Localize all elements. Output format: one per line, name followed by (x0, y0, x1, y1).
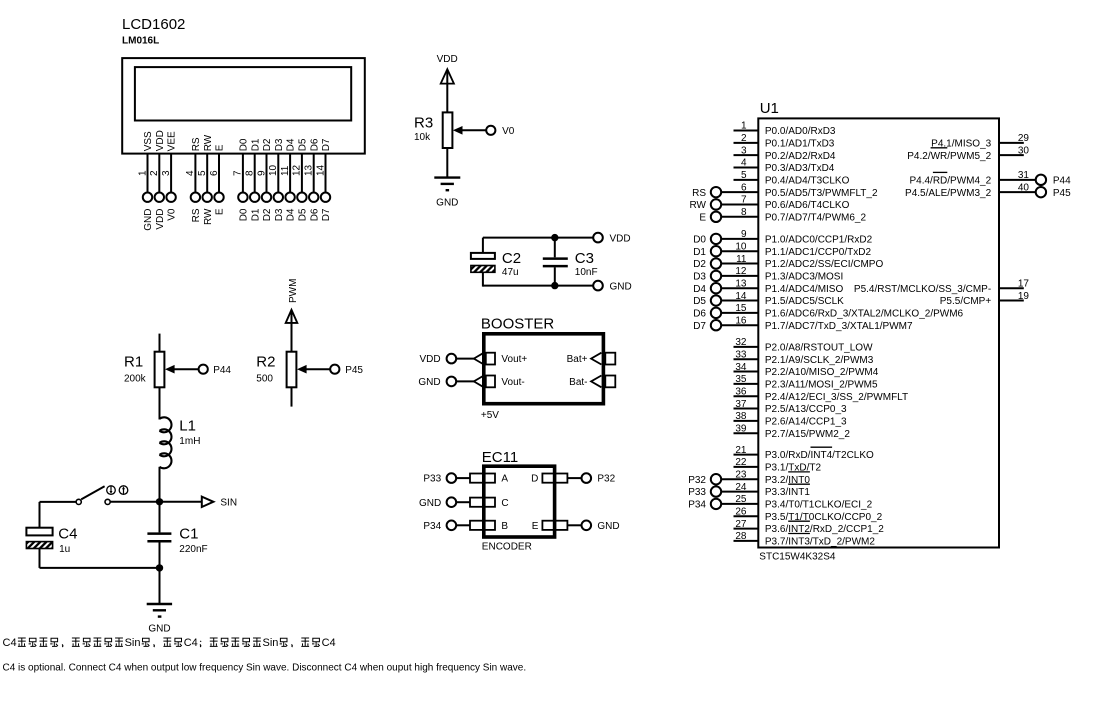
wire R2 bottom stub (291, 387, 293, 406)
svg-text:EC11: EC11 (482, 449, 518, 466)
svg-text:P33: P33 (423, 474, 441, 485)
svg-text:RS: RS (191, 208, 202, 222)
PWM net label (vertical) (288, 279, 299, 303)
capacitor C1 labels (179, 526, 207, 555)
switch direction indicator (circled up arrow) (119, 486, 128, 495)
svg-text:29: 29 (1018, 133, 1030, 144)
U1 pin 22 (P3.1) (734, 457, 822, 473)
svg-text:V0: V0 (502, 126, 515, 137)
svg-text:24: 24 (735, 482, 747, 493)
svg-text:P3.3/INT1: P3.3/INT1 (765, 487, 810, 498)
svg-text:P5.5/CMP+: P5.5/CMP+ (940, 296, 992, 307)
U1 pin 8 (P0.7) (699, 207, 866, 223)
wire C4 to node below C1 (40, 567, 160, 569)
svg-text:VDD: VDD (155, 209, 166, 230)
BOOSTER pin Vout+ (474, 353, 528, 366)
BOOSTER pin Bat+ (567, 353, 616, 366)
svg-text:D2: D2 (262, 138, 273, 151)
svg-text:P3.4/T0/T1CLKO/ECI_2: P3.4/T0/T1CLKO/ECI_2 (765, 500, 873, 511)
svg-text:14: 14 (315, 164, 326, 176)
terminal GND (EC11 pin C) (419, 497, 456, 508)
svg-text:21: 21 (735, 445, 747, 456)
svg-text:GND: GND (418, 377, 440, 388)
switch direction indicator (circled down arrow) (107, 486, 116, 495)
svg-text:C4 is optional. Connect C4 whe: C4 is optional. Connect C4 when output l… (3, 662, 527, 673)
U1 pin 11 (P1.2) (693, 254, 883, 270)
U1 pin 33 (P2.1) (734, 349, 874, 365)
U1 pin 21 (P3.0) (734, 445, 875, 461)
svg-text:P1.6/ADC6/RxD_3/XTAL2/MCLKO_2/: P1.6/ADC6/RxD_3/XTAL2/MCLKO_2/PWM6 (765, 308, 964, 319)
svg-text:VDD: VDD (155, 130, 166, 151)
svg-text:D3: D3 (274, 208, 285, 221)
svg-text:P32: P32 (597, 474, 615, 485)
U1 pin 35 (P2.3) (734, 374, 878, 390)
svg-text:P3.6/INT2/RxD_2/CCP1_2: P3.6/INT2/RxD_2/CCP1_2 (765, 524, 884, 535)
svg-text:D5: D5 (298, 138, 309, 151)
svg-text:D5: D5 (693, 296, 706, 307)
LCD pin 5 (RW) wire, number and terminal RW (197, 134, 214, 225)
note line 2 (English): C4 optional note (3, 662, 527, 673)
U1 part type STC15W4K32S4 (759, 552, 836, 563)
U1 pin 30 (P4.2) (907, 145, 1029, 161)
svg-text:47u: 47u (502, 267, 519, 278)
svg-text:D2: D2 (693, 259, 706, 270)
svg-text:9: 9 (256, 170, 267, 176)
svg-text:D6: D6 (693, 308, 706, 319)
svg-text:D: D (531, 474, 538, 485)
svg-text:13: 13 (304, 164, 315, 176)
capacitor C1 (220nF) (147, 502, 171, 568)
EC11 body (484, 466, 555, 537)
svg-text:P1.2/ADC2/SS/ECI/CMPO: P1.2/ADC2/SS/ECI/CMPO (765, 259, 884, 270)
terminal P32 (EC11 pin D) (582, 473, 616, 484)
terminal V0 (486, 126, 515, 137)
svg-text:GND: GND (419, 498, 441, 509)
svg-text:P0.0/AD0/RxD3: P0.0/AD0/RxD3 (765, 126, 836, 137)
svg-text:P1.7/ADC7/TxD_3/XTAL1/PWM7: P1.7/ADC7/TxD_3/XTAL1/PWM7 (765, 321, 913, 332)
U1 pin 36 (P2.4) (734, 386, 909, 402)
svg-text:U1: U1 (760, 100, 779, 117)
BOOSTER pin Vout- (474, 376, 525, 389)
svg-text:C4: C4 (3, 637, 17, 649)
terminal GND (right of C3) (593, 281, 632, 292)
svg-text:7: 7 (741, 195, 747, 206)
svg-text:1: 1 (741, 121, 747, 132)
U1 pin 9 (P1.0) (693, 229, 872, 245)
svg-text:Bat+: Bat+ (567, 354, 588, 365)
svg-text:17: 17 (1018, 278, 1030, 289)
svg-text:10: 10 (268, 164, 279, 176)
svg-text:P1.0/ADC0/CCP1/RxD2: P1.0/ADC0/CCP1/RxD2 (765, 235, 873, 246)
svg-text:25: 25 (735, 494, 747, 505)
wire GND to Vout- pin (456, 380, 474, 382)
U1 pin 26 (P3.5) (734, 506, 883, 522)
potentiometer R2 body (287, 352, 297, 388)
svg-text:GND: GND (143, 209, 154, 231)
U1 pin 6 (P0.5) (692, 182, 878, 198)
svg-text:B: B (501, 521, 508, 532)
svg-text:RW: RW (690, 200, 707, 211)
U1 pin 37 (P2.5) (734, 399, 848, 415)
svg-text:E: E (699, 212, 706, 223)
LCD pin 12 (D5) wire, number and terminal D5 (292, 138, 309, 221)
svg-text:P0.3/AD3/TxD4: P0.3/AD3/TxD4 (765, 163, 835, 174)
wire R1 to L1 (159, 387, 161, 419)
ground symbol (below R3) (434, 178, 460, 209)
U1 pin 14 (P1.5) (693, 291, 844, 307)
LCD pin 4 (RS) wire, number and terminal RS (185, 137, 202, 222)
svg-text:P1.5/ADC5/SCLK: P1.5/ADC5/SCLK (765, 296, 844, 307)
inductor L1 (160, 417, 172, 468)
svg-text:5: 5 (197, 170, 208, 176)
svg-text:C4: C4 (184, 637, 198, 649)
svg-text:D4: D4 (693, 284, 706, 295)
BOOSTER value +5V (481, 410, 499, 421)
svg-text:37: 37 (735, 399, 747, 410)
svg-text:2: 2 (149, 170, 160, 176)
wire GND rail (C2/C3 bottom) (483, 285, 593, 287)
svg-text:RS: RS (692, 188, 706, 199)
svg-text:GND: GND (148, 624, 170, 635)
svg-text:D3: D3 (274, 138, 285, 151)
svg-text:1u: 1u (59, 544, 70, 555)
svg-text:3: 3 (741, 145, 747, 156)
PWM input arrow (286, 310, 298, 352)
svg-text:C1: C1 (179, 526, 198, 543)
terminal VDD (right of C3) (593, 233, 630, 245)
inductor L1 labels (179, 418, 200, 447)
svg-text:30: 30 (1018, 145, 1030, 156)
svg-text:P45: P45 (1053, 188, 1071, 199)
U1 pin 27 (P3.6) (734, 519, 885, 535)
svg-text:6: 6 (209, 170, 220, 176)
svg-text:D1: D1 (693, 247, 706, 258)
U1 pin 16 (P1.7) (693, 315, 913, 331)
svg-text:D6: D6 (309, 138, 320, 151)
EC11 part type ENCODER (482, 541, 532, 552)
svg-text:1mH: 1mH (179, 436, 200, 447)
U1 pin 5 (P0.4) (734, 170, 850, 186)
svg-text:P2.3/A11/MOSI_2/PWM5: P2.3/A11/MOSI_2/PWM5 (765, 379, 878, 390)
svg-text:L1: L1 (179, 418, 196, 435)
svg-text:6: 6 (741, 182, 747, 193)
svg-text:STC15W4K32S4: STC15W4K32S4 (759, 552, 836, 563)
svg-text:33: 33 (735, 349, 747, 360)
svg-text:11: 11 (280, 165, 291, 176)
svg-text:RS: RS (191, 137, 202, 151)
svg-text:E: E (215, 208, 226, 215)
LCD1602 title label (122, 16, 185, 33)
svg-text:28: 28 (735, 531, 747, 542)
svg-text:LCD1602: LCD1602 (122, 16, 185, 33)
svg-text:26: 26 (735, 506, 747, 517)
U1 pin 1 (P0.0) (734, 121, 836, 137)
svg-text:35: 35 (735, 374, 747, 385)
svg-text:1: 1 (137, 170, 148, 176)
power terminal VDD (top of R3) (437, 54, 458, 113)
U1 pin 7 (P0.6) (690, 195, 850, 211)
EC11 pin C (456, 498, 508, 509)
LCD pin 1 (VSS) wire, number and terminal GND (137, 131, 154, 231)
wire R1 top stub (159, 334, 161, 352)
svg-text:P34: P34 (688, 500, 706, 511)
svg-text:10k: 10k (414, 132, 431, 143)
svg-text:E: E (532, 521, 539, 532)
svg-text:36: 36 (735, 386, 747, 397)
LCD pin 9 (D2) wire, number and terminal D2 (256, 138, 273, 221)
junction node at C3 bottom (551, 282, 558, 289)
LCD pin 11 (D4) wire, number and terminal D4 (280, 138, 297, 221)
U1 pin 19 (P5.5) (940, 291, 1030, 307)
U1 pin 24 (P3.3) (688, 482, 810, 498)
svg-text:RW: RW (203, 134, 214, 151)
junction node at C3 top (551, 234, 558, 241)
svg-text:P44: P44 (1053, 175, 1071, 186)
terminal P45 (R2 wiper) (330, 365, 363, 376)
svg-text:P4.4/RD/PWM4_2: P4.4/RD/PWM4_2 (909, 175, 991, 186)
ground symbol (below C1) (147, 604, 172, 635)
U1 pin 12 (P1.3) (693, 266, 843, 282)
capacitor C4 (electrolytic 1u) (26, 528, 52, 568)
LCD1602 part type LM016L (122, 35, 159, 46)
svg-text:P1.1/ADC1/CCP0/TxD2: P1.1/ADC1/CCP0/TxD2 (765, 247, 872, 258)
svg-text:P0.5/AD5/T3/PWMFLT_2: P0.5/AD5/T3/PWMFLT_2 (765, 188, 878, 199)
potentiometer R1 body (155, 352, 165, 388)
svg-text:GND: GND (436, 198, 458, 209)
svg-text:P0.7/AD7/T4/PWM6_2: P0.7/AD7/T4/PWM6_2 (765, 212, 867, 223)
svg-text:VDD: VDD (437, 54, 458, 65)
svg-text:LM016L: LM016L (122, 35, 159, 46)
LCD pin 7 (D0) wire, number and terminal D0 (233, 138, 250, 221)
svg-text:P34: P34 (423, 521, 441, 532)
svg-text:P2.5/A13/CCP0_3: P2.5/A13/CCP0_3 (765, 404, 847, 415)
U1 pin 23 (P3.2) (688, 469, 810, 485)
svg-text:D0: D0 (693, 235, 706, 246)
U1 body STC15W4K32S4 (758, 118, 999, 547)
BOOSTER pin Bat- (569, 376, 615, 389)
U1 pin 31 (P4.4) (909, 170, 1071, 186)
R3 wiper arrow and wire to V0 (453, 126, 486, 135)
svg-text:P3.5/T1/T0CLKO/CCP0_2: P3.5/T1/T0CLKO/CCP0_2 (765, 512, 883, 523)
resistor R2 labels (256, 354, 275, 385)
svg-text:P3.0/RxD/INT4/T2CLKO: P3.0/RxD/INT4/T2CLKO (765, 450, 874, 461)
node at SIN junction (156, 498, 163, 505)
svg-text:500: 500 (256, 374, 273, 385)
svg-text:8: 8 (245, 170, 256, 176)
terminal VDD (BOOSTER input) (419, 354, 456, 365)
BOOSTER module title (481, 315, 555, 332)
svg-text:Vout+: Vout+ (501, 354, 527, 365)
svg-text:GND: GND (597, 521, 619, 532)
svg-text:P2.1/A9/SCLK_2/PWM3: P2.1/A9/SCLK_2/PWM3 (765, 355, 874, 366)
svg-text:C4: C4 (58, 526, 77, 543)
svg-text:12: 12 (735, 266, 747, 277)
svg-text:D1: D1 (250, 138, 261, 151)
R1 wiper arrow and wire to P44 (165, 365, 199, 374)
terminal GND (EC11 pin E) (582, 521, 620, 532)
svg-text:19: 19 (1018, 291, 1030, 302)
U1 pin 40 (P4.5) (905, 182, 1071, 198)
svg-text:P2.7/A15/PWM2_2: P2.7/A15/PWM2_2 (765, 429, 850, 440)
svg-text:P2.4/A12/ECI_3/SS_2/PWMFLT: P2.4/A12/ECI_3/SS_2/PWMFLT (765, 392, 908, 403)
svg-text:5: 5 (741, 170, 747, 181)
svg-text:2: 2 (741, 133, 747, 144)
svg-text:15: 15 (735, 303, 747, 314)
svg-text:P0.2/AD2/RxD4: P0.2/AD2/RxD4 (765, 151, 836, 162)
EC11 pin A (456, 474, 508, 485)
svg-text:P4.5/ALE/PWM3_2: P4.5/ALE/PWM3_2 (905, 188, 992, 199)
svg-text:D4: D4 (286, 208, 297, 221)
svg-text:32: 32 (735, 337, 747, 348)
svg-text:SIN: SIN (220, 498, 237, 509)
capacitor C3 labels (575, 250, 598, 278)
svg-text:4: 4 (185, 170, 196, 176)
wire R3 to ground (446, 148, 448, 177)
svg-text:P4.2/WR/PWM5_2: P4.2/WR/PWM5_2 (907, 151, 991, 162)
svg-text:P1.4/ADC4/MISO: P1.4/ADC4/MISO (765, 284, 844, 295)
svg-text:11: 11 (736, 254, 747, 265)
svg-text:10nF: 10nF (575, 267, 598, 278)
SIN output arrow and label (202, 497, 237, 509)
LCD pin 8 (D1) wire, number and terminal D1 (245, 138, 262, 221)
terminal P44 (R1 wiper) (199, 365, 232, 376)
svg-text:D1: D1 (250, 208, 261, 221)
svg-text:Sin: Sin (263, 637, 279, 649)
svg-text:D0: D0 (239, 138, 250, 151)
svg-text:P2.0/A8/RSTOUT_LOW: P2.0/A8/RSTOUT_LOW (765, 343, 873, 354)
svg-text:22: 22 (735, 457, 747, 468)
svg-text:D6: D6 (309, 208, 320, 221)
svg-text:VDD: VDD (610, 233, 631, 244)
U1 pin 10 (P1.1) (693, 241, 871, 257)
switch SW1 (to C4) (76, 486, 159, 504)
node below C1 (156, 564, 163, 571)
resistor R3 label (414, 114, 433, 143)
svg-text:C4: C4 (322, 637, 336, 649)
EC11 pin D (531, 474, 581, 485)
wire node to SIN arrow (160, 501, 202, 503)
U1 pin 17 (P5.4) (854, 278, 1030, 294)
capacitor C3 (10nF) (543, 238, 568, 286)
capacitor C4 labels (58, 526, 77, 555)
svg-text:D0: D0 (239, 208, 250, 221)
svg-text:3: 3 (161, 170, 172, 176)
U1 pin 28 (P3.7) (734, 531, 876, 547)
svg-text:D7: D7 (321, 208, 332, 221)
svg-text:R2: R2 (256, 354, 275, 371)
svg-text:VEE: VEE (167, 131, 178, 151)
svg-text:39: 39 (735, 423, 747, 434)
U1 pin 3 (P0.2) (734, 145, 836, 161)
svg-text:R1: R1 (124, 354, 143, 371)
terminal GND (BOOSTER input) (418, 377, 456, 388)
svg-text:C2: C2 (502, 250, 521, 267)
svg-text:12: 12 (292, 164, 303, 176)
svg-text:VSS: VSS (143, 131, 154, 151)
svg-text:Sin: Sin (125, 637, 141, 649)
capacitor C2 labels (502, 250, 521, 278)
wire node to ground (159, 568, 161, 604)
terminal P34 (EC11 pin B) (423, 521, 456, 532)
svg-text:7: 7 (233, 170, 244, 176)
U1 pin 15 (P1.6) (693, 303, 963, 319)
LCD pin 14 (D7) wire, number and terminal D7 (315, 138, 332, 221)
resistor R1 labels (124, 354, 147, 385)
capacitor C2 (electrolytic 47u) (471, 238, 495, 287)
svg-text:14: 14 (735, 291, 747, 302)
svg-text:220nF: 220nF (179, 544, 207, 555)
potentiometer R3 body (443, 112, 453, 148)
svg-text:10: 10 (735, 241, 747, 252)
svg-text:Bat-: Bat- (569, 377, 587, 388)
svg-text:R3: R3 (414, 114, 433, 131)
terminal P33 (EC11 pin A) (423, 473, 456, 484)
svg-text:RW: RW (203, 208, 214, 225)
svg-text:P32: P32 (688, 475, 706, 486)
svg-text:P33: P33 (688, 487, 706, 498)
U1 pin 34 (P2.2) (734, 362, 879, 378)
svg-text:8: 8 (741, 207, 747, 218)
svg-text:VDD: VDD (419, 354, 440, 365)
U1 pin 32 (P2.0) (734, 337, 874, 353)
svg-text:BOOSTER: BOOSTER (481, 315, 555, 332)
LCD pin 13 (D6) wire, number and terminal D6 (304, 138, 321, 221)
svg-text:D2: D2 (262, 208, 273, 221)
svg-text:Vout-: Vout- (501, 377, 524, 388)
svg-text:9: 9 (741, 229, 747, 240)
svg-text:P44: P44 (213, 365, 231, 376)
svg-text:16: 16 (735, 315, 747, 326)
U1 pin 29 (P4.1) (931, 133, 1029, 149)
svg-text:A: A (501, 474, 508, 485)
svg-text:D3: D3 (693, 271, 706, 282)
svg-text:P0.6/AD6/T4CLKO: P0.6/AD6/T4CLKO (765, 200, 850, 211)
wire L1 to node SIN (159, 467, 161, 502)
svg-text:P0.4/AD4/T3CLKO: P0.4/AD4/T3CLKO (765, 175, 850, 186)
U1 pin 38 (P2.6) (734, 411, 848, 427)
svg-text:PWM: PWM (288, 279, 299, 303)
LCD pin 3 (VEE) wire, number and terminal V0 (161, 131, 178, 221)
svg-text:13: 13 (735, 278, 747, 289)
svg-text:D7: D7 (693, 321, 706, 332)
LCD display module LCD1 body (122, 58, 365, 154)
svg-text:200k: 200k (124, 374, 147, 385)
svg-text:P0.1/AD1/TxD3: P0.1/AD1/TxD3 (765, 138, 835, 149)
svg-text:P45: P45 (345, 365, 363, 376)
svg-text:ENCODER: ENCODER (482, 541, 532, 552)
U1 pin 2 (P0.1) (734, 133, 835, 149)
svg-text:C3: C3 (575, 250, 594, 267)
wire VDD rail (C2/C3 top) (483, 237, 593, 239)
R2 wiper arrow and wire to P45 (297, 365, 330, 374)
svg-text:P3.7/INT3/TxD_2/PWM2: P3.7/INT3/TxD_2/PWM2 (765, 537, 875, 548)
svg-text:+5V: +5V (481, 410, 499, 421)
microcontroller U1 reference label (760, 100, 779, 117)
wire switch to C4 (40, 502, 77, 528)
LCD pin 6 (E) wire, number and terminal E (209, 144, 226, 215)
BOOSTER module body (484, 334, 604, 404)
svg-text:31: 31 (1018, 170, 1030, 181)
svg-text:4: 4 (741, 158, 747, 169)
EC11 pin E (532, 521, 582, 532)
EC11 pin B (456, 521, 508, 532)
svg-text:40: 40 (1018, 182, 1030, 193)
svg-text:38: 38 (735, 411, 747, 422)
svg-text:D4: D4 (286, 138, 297, 151)
svg-text:GND: GND (610, 281, 632, 292)
wire VDD to Vout+ pin (456, 358, 474, 360)
svg-text:23: 23 (735, 469, 747, 480)
